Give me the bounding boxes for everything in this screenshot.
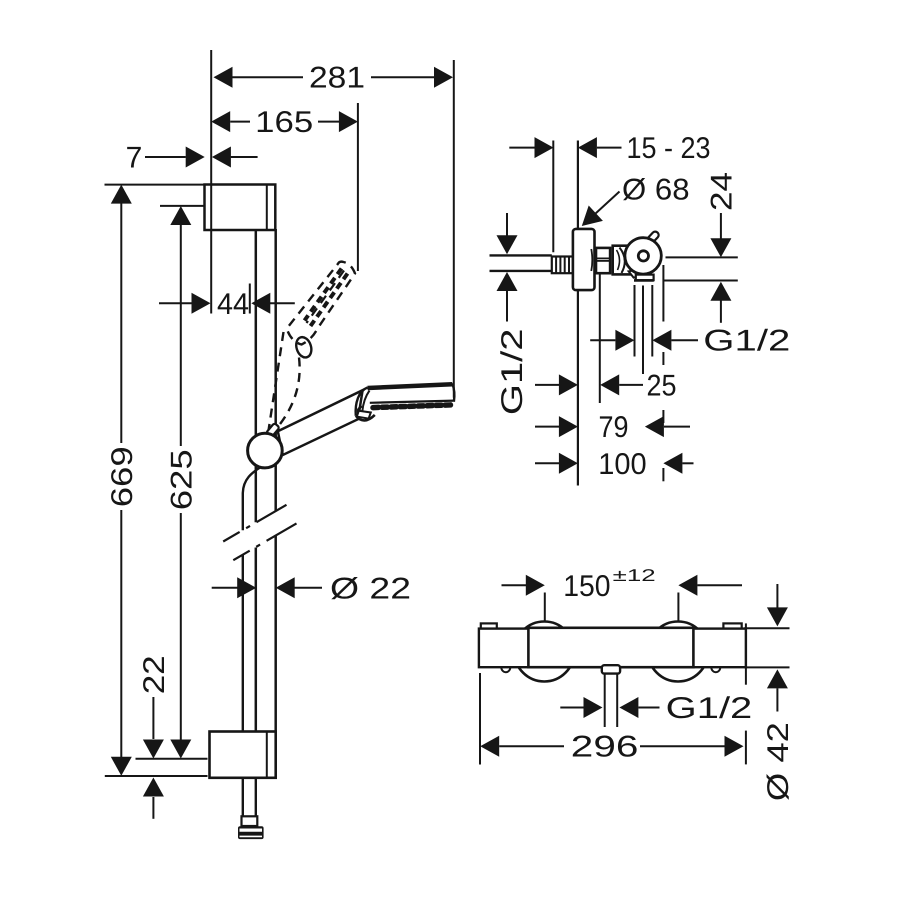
outlet extension line left [634,285,636,357]
knob axis reference line [666,256,738,258]
right wall tab [723,623,741,631]
150 extension line left [544,593,546,621]
dimension 44 [159,288,295,321]
hand shower head face ridge [370,401,455,403]
svg-text:24: 24 [705,172,738,211]
label diameter 68 with leader [582,173,690,226]
shower hose upper curve from slider [243,467,262,531]
left wall tab [481,623,497,631]
svg-text:44: 44 [217,288,249,321]
valve foot wedge [629,270,642,278]
svg-text:G1/2: G1/2 [666,692,753,725]
hex union nut [594,248,610,273]
dimension G1/2 bottom outlet [560,692,752,725]
slider knob [248,433,283,468]
svg-text:100: 100 [598,448,646,481]
outlet stub [602,665,620,673]
dimension 15 - 23 [509,132,710,165]
valve base plate [636,275,654,281]
extension line y=776 (669 bottom) [105,775,208,777]
svg-text:Ø 68: Ø 68 [622,173,690,206]
dimension 296 [480,731,743,764]
dimension 25 [535,369,677,402]
shower hose lower run [242,555,244,817]
extension line vertical x=358 (165 right) [357,103,359,271]
valve base bottom line [634,279,654,282]
hand shower handle [278,390,363,455]
extension line y=758.8 (625 bottom) [136,758,208,760]
outlet extension line right [651,285,653,357]
svg-text:7: 7 [126,142,143,175]
296 extension line right [745,731,747,765]
dimension 100 [535,448,694,481]
svg-text:296: 296 [571,731,639,764]
outlet center extension line [642,286,644,375]
svg-text:G1/2: G1/2 [703,325,790,358]
dimension 281 [214,62,454,95]
body right edge extension [745,623,747,684]
body top reference line right [744,627,789,629]
svg-text:G1/2: G1/2 [496,328,529,415]
hose end collar [242,816,258,826]
svg-text:Ø 22: Ø 22 [330,572,411,605]
left screw bump [501,667,510,672]
wall bracket top [205,185,276,231]
extension line y=205.9 (625 top) [160,205,204,207]
150 extension line right [677,593,679,621]
extension line vertical x=454 (281 right) [453,60,455,398]
outlet stub extension lines [605,674,618,727]
svg-text:±12: ±12 [613,566,656,585]
svg-text:79: 79 [599,411,629,444]
knob front hidden edge line [662,265,664,481]
mixer body tube [479,629,746,668]
dimension 625 [165,206,198,759]
extension line y=184.6 (bar top / 669) [105,184,205,186]
mixer front body [528,628,693,667]
dimension 22 [138,655,171,819]
cone nut hook line [358,407,362,414]
slide bar lower segment [256,536,276,733]
valve inlet block [613,246,632,275]
wall bracket bottom [210,732,276,778]
cone nut flat [357,411,371,419]
dimension G1/2 supply [496,213,529,415]
dimension 79 [535,411,690,444]
valve base reference line [663,280,738,282]
dimension 150 plus minus 12 [502,566,743,603]
phantom handle dashed edge right [277,358,300,429]
escutcheon flange [573,229,595,290]
hex nut face extension line [599,275,601,404]
supply pipe [490,255,552,271]
head left cap inner line [362,391,369,412]
dimension 24 [705,172,738,323]
slide bar upper segment [256,229,276,522]
wall face line [577,141,579,486]
svg-text:25: 25 [647,369,677,402]
hand shower head left cap [356,388,368,416]
volume knob right [648,622,708,682]
bar break symbol lower chain line [233,523,296,560]
phantom handle dashed edge left [269,332,284,431]
dimension diameter 42 [762,584,795,801]
dimension 165 [211,106,358,139]
dimension 669 [106,185,139,776]
svg-text:165: 165 [255,106,313,139]
dimension diameter 22 [212,572,411,605]
extension line vertical x=211 (wall plate) [210,50,212,314]
hand shower head right end cap [452,383,454,401]
bar break symbol upper chain line [223,505,286,542]
slider release tab [266,423,280,437]
296 extension line left [479,673,481,765]
svg-text:15 - 23: 15 - 23 [627,132,711,165]
pipe thread [552,257,573,274]
body bottom reference line right [744,666,789,668]
thread start extension line [552,141,554,253]
control knob [625,238,661,274]
svg-text:22: 22 [138,655,171,694]
svg-text:281: 281 [309,62,365,95]
cone nut outer ring [356,415,375,421]
svg-text:669: 669 [106,446,139,507]
dimension 7 [126,142,258,175]
temperature knob left [514,622,574,682]
svg-text:Ø 42: Ø 42 [762,722,795,801]
knob hub [638,251,648,261]
shower hose right edge below bracket [255,779,257,817]
hand shower head top edge [368,384,453,388]
right screw bump [711,667,720,672]
phantom head hose connector ellipse [294,335,314,359]
tick for 44 dimension [249,284,251,314]
hand shower spray face nozzles [373,405,452,408]
svg-text:150: 150 [563,570,610,603]
control lever nub [646,230,660,244]
svg-text:625: 625 [165,449,198,510]
phantom hand shower head (raised position, dashed) [287,262,355,345]
hose end nut [238,826,264,839]
dimension G1/2 outlet [590,325,790,358]
